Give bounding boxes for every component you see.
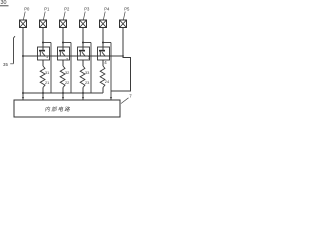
piezo element P0 box symbol [20,20,27,28]
transistor 2 emitter arrow [62,52,65,56]
piezo element P3 label [83,6,90,19]
label 35 [3,62,14,67]
wire from P1 down to cell [42,28,44,51]
transistor 1 emitter arrow [42,52,45,56]
arrow into box right wire [110,97,112,100]
transistor cell 4 box [98,47,110,60]
wire from P2 down to cell [62,28,64,51]
internal circuit box [14,100,120,117]
node col 2 common bus [62,92,64,94]
resistor zigzag col 3 [80,66,85,88]
transistor 4 base lead [99,52,101,57]
transistor 4 emitter arrow [102,52,105,56]
svg-text:21: 21 [45,80,49,85]
piezo element P5 box symbol [120,20,127,28]
driver section label 35 leader [14,36,16,63]
svg-text:P5: P5 [124,6,130,11]
wire col 1 into box with arrow [42,93,44,99]
bypass wire col 2 [70,43,72,94]
gate bus wire y56 [23,55,123,57]
svg-text:30: 30 [1,0,7,6]
transistor 2 base lead [59,52,61,57]
svg-text:P0: P0 [24,6,30,11]
node col 3 common bus [82,92,84,94]
junction node col 1 at y42.5 [42,41,44,43]
piezo element P5 label [123,6,130,19]
piezo element P3 box symbol [80,20,87,28]
transistor cell 1 box [38,47,50,60]
svg-text:1: 1 [46,55,48,59]
wire col 3 into box with arrow [82,93,84,99]
svg-text:P3: P3 [84,6,90,11]
piezo element P4 box symbol [100,20,107,28]
figure number 30 [0,0,9,6]
bypass wire col 1 [50,43,52,94]
junction node col 3 at y42.5 [82,41,84,43]
wire column P0 down to internal circuit [22,28,24,100]
svg-text:35: 35 [3,62,8,67]
wire resistor col 1 to bus [42,88,44,94]
piezo element P0 label [23,6,30,19]
transistor 3 bar [79,50,85,52]
piezo element P1 label [43,6,50,19]
transistor cell 2 box [58,47,70,60]
node col P0 / common bus [22,92,24,94]
wire resistor col 3 to bus [82,88,84,94]
arrow into box col P0 [22,97,24,100]
bypass wire col 3 [90,43,92,94]
svg-text:P1: P1 [44,6,50,11]
wire from P4 down to cell [102,28,104,51]
resistor zigzag col 1 [40,66,45,88]
branch wire to bypass col 2 [63,42,71,44]
branch wire to bypass col 3 [83,42,91,44]
svg-text:3: 3 [88,56,90,60]
branch wire to bypass col 1 [43,42,51,44]
transistor 2 bar [59,50,65,52]
svg-text:内部电路: 内部电路 [45,106,71,113]
node col P0 / gate bus [22,55,24,57]
transistor 3 emitter arrow [82,52,85,56]
wire cell 3 to resistor [82,60,84,66]
wire col 2 into box with arrow [62,93,64,99]
svg-text:P4: P4 [104,6,110,11]
svg-text:33: 33 [85,70,89,75]
transistor cell 3 box [78,47,90,60]
common bus wire y93 [23,92,103,94]
svg-text:P2: P2 [64,6,70,11]
wire resistor col 2 to bus [62,88,64,94]
junction node col 4 at y42.5 [102,41,104,43]
wire cell 1 to resistor [42,60,44,66]
transistor 4 bar [99,50,105,52]
wire column P5 jog to right and into box [111,28,131,92]
wire cell 2 to resistor [62,60,64,66]
node col 1 common bus [42,92,44,94]
junction node col 2 at y42.5 [62,41,64,43]
piezo element P2 label [63,6,70,19]
svg-text:31: 31 [45,70,49,75]
svg-text:23: 23 [85,80,89,85]
wire cell 4 to resistor [102,60,104,66]
svg-text:22: 22 [65,80,69,85]
svg-text:2: 2 [66,58,68,62]
wire from P3 down to cell [82,28,84,51]
piezo element P4 label [103,6,110,19]
transistor 1 base lead [39,52,41,57]
resistor zigzag col 2 [60,66,65,88]
piezo element P1 box symbol [40,20,47,28]
node P5 joins gate bus [122,55,124,57]
piezo element P2 box symbol [60,20,67,28]
transistor 3 base lead [79,52,81,57]
wire resistor col 4 to bus [102,88,104,94]
bypass wire col 4 into box [110,43,112,100]
label 7 leader [121,98,129,104]
branch wire to bypass col 4 [103,42,111,44]
resistor zigzag col 4 [100,66,105,88]
svg-text:32: 32 [65,70,69,75]
transistor 1 bar [39,50,45,52]
